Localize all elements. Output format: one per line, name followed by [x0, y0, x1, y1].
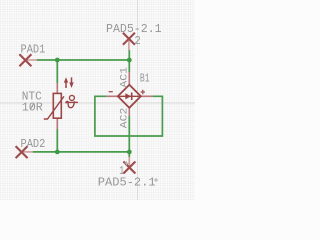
pin stub PAD1 [25, 59, 37, 61]
pin stub PAD5-2.1 pin2 [128, 39, 130, 51]
wire NTC branch bottom vertical [56, 129, 58, 152]
pinhead X PAD5 pin1 [123, 162, 135, 174]
pin stub PAD2 [22, 151, 33, 153]
svg-text:2: 2 [134, 34, 140, 48]
pin NTC top [56, 83, 58, 94]
svg-text:10R: 10R [22, 100, 43, 114]
svg-text:PAD1: PAD1 [21, 42, 46, 56]
diode cathode bar [131, 93, 133, 101]
wire loop from bridge minus around to plus [95, 96, 162, 136]
svg-text:B1: B1 [140, 72, 150, 86]
pinhead X PAD1 [19, 54, 31, 66]
origin axis horizontal [0, 102, 195, 104]
minus sign [109, 91, 113, 93]
pin stub PAD5-2.1 pin1 [128, 157, 130, 168]
arrow up [65, 81, 67, 88]
svg-text:AC2: AC2 [118, 108, 130, 129]
pinhead X PAD2 [16, 146, 28, 158]
svg-text:AC1: AC1 [118, 67, 130, 88]
svg-text:PAD5-2.1: PAD5-2.1 [98, 176, 156, 190]
thermistor diagonal [44, 96, 64, 119]
junction dot bottom-left [55, 150, 60, 155]
bridge B1 diamond [118, 85, 141, 108]
junction dot bottom-right [127, 150, 132, 155]
origin cross after bottom label [154, 178, 158, 182]
plus sign [141, 90, 145, 94]
diode line [119, 95, 141, 97]
theta glyph [65, 95, 78, 107]
junction dot top-right [127, 58, 132, 63]
origin axis vertical [137, 0, 139, 200]
pin bridge AC1 [128, 72, 130, 85]
wire net N$1 top horizontal [37, 59, 130, 61]
wire right branch top vertical [128, 50, 130, 72]
wire NTC branch top vertical [56, 60, 58, 83]
label 10R [30, 103, 34, 109]
pin NTC bottom [56, 118, 58, 129]
wire net N$2 bottom horizontal [33, 151, 130, 153]
junction dot top-left [55, 58, 60, 63]
pin bridge plus [140, 95, 152, 97]
pinhead X PAD5 pin2 [123, 33, 135, 45]
wire right branch bottom vertical [128, 116, 130, 158]
diode triangle [125, 93, 131, 99]
svg-text:PAD2: PAD2 [21, 137, 46, 151]
pin bridge minus [106, 95, 117, 97]
pin bridge AC2 [128, 108, 130, 116]
thermistor R body [53, 93, 61, 118]
origin cross bottom part [124, 161, 128, 165]
arrow down [71, 77, 73, 83]
